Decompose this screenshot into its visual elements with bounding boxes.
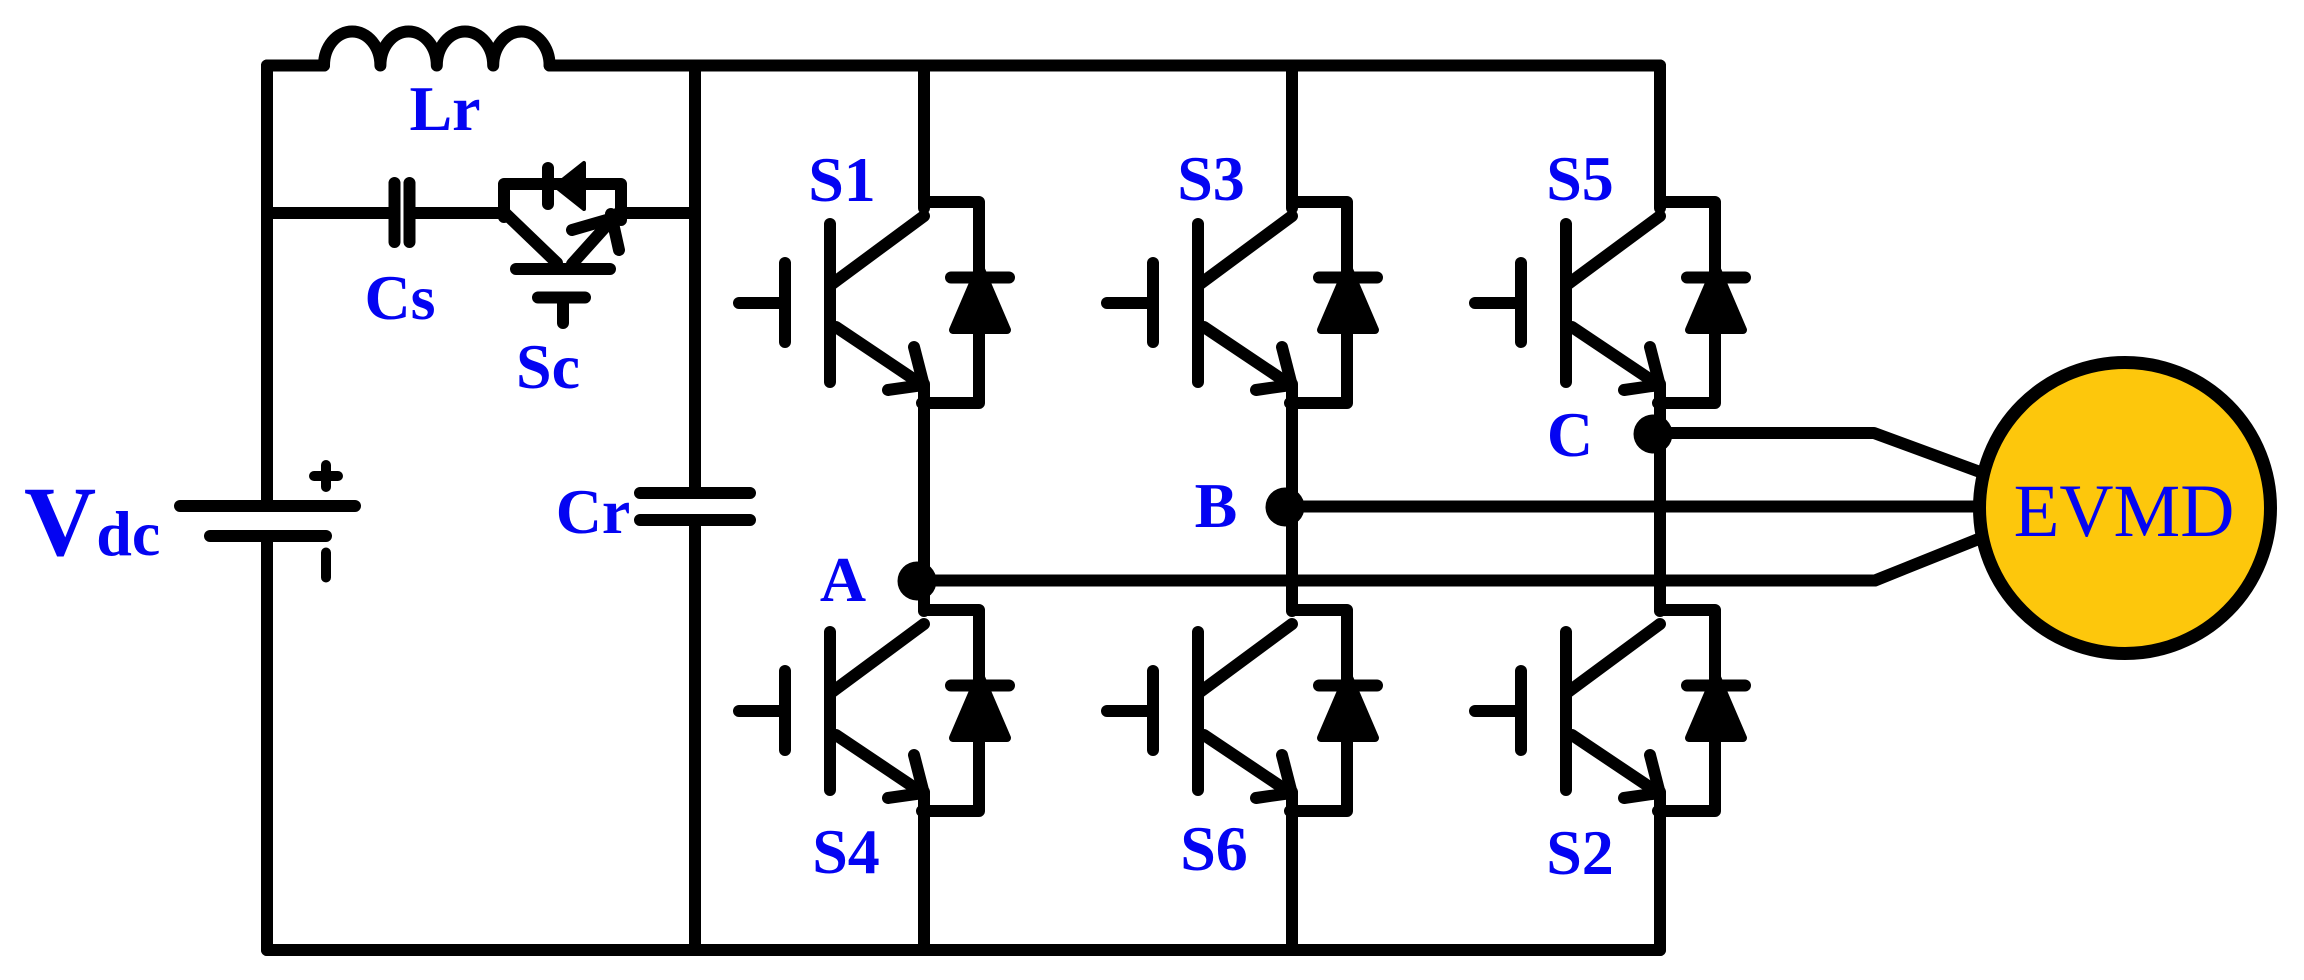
svg-text:S3: S3 <box>1177 143 1245 214</box>
wire Cr leg upper <box>689 66 701 491</box>
wire top DC bus <box>267 60 1660 72</box>
svg-text:Lr: Lr <box>409 73 480 144</box>
transistor S6 <box>1107 624 1292 798</box>
wire phase leg A lower <box>918 792 930 950</box>
svg-text:C: C <box>1547 399 1593 470</box>
wire phase B output to EVMD <box>1285 501 1980 513</box>
wire phase leg B upper <box>1286 66 1298 209</box>
wire Cs branch from left vertical <box>267 207 389 219</box>
svg-text:Sc: Sc <box>516 331 580 402</box>
freewheel diode of S6 <box>1290 610 1377 811</box>
wire phase C output to EVMD <box>1653 433 1980 472</box>
freewheel diode of S4 <box>922 610 1009 811</box>
node A junction dot <box>898 562 937 601</box>
wire Cs to Sc <box>415 207 504 219</box>
svg-text:S4: S4 <box>812 816 880 887</box>
node B junction dot <box>1266 488 1305 527</box>
wire phase leg A middle <box>918 384 930 611</box>
node C junction dot <box>1634 415 1673 454</box>
wire phase leg B lower <box>1286 792 1298 950</box>
transistor S2 <box>1475 624 1660 798</box>
transistor S3 <box>1107 216 1292 390</box>
inductor Lr <box>324 31 550 65</box>
transistor S1 <box>739 216 924 390</box>
wire left vertical from top bus to battery <box>261 66 273 507</box>
wire Sc to Cr leg <box>621 207 695 219</box>
wire phase leg C lower <box>1654 792 1666 950</box>
freewheel diode of S3 <box>1290 202 1377 403</box>
svg-text:S1: S1 <box>808 144 876 215</box>
svg-text:S2: S2 <box>1546 817 1614 888</box>
svg-text:Cs: Cs <box>364 262 435 333</box>
svg-text:A: A <box>820 544 866 615</box>
svg-text:Cr: Cr <box>556 476 631 547</box>
wire phase leg B middle <box>1286 384 1298 611</box>
wire bottom DC bus <box>267 944 1660 956</box>
wire left vertical from battery to bottom bus <box>261 536 273 950</box>
wire Cr leg lower <box>689 523 701 950</box>
switch Sc (auxiliary IGBT) <box>504 184 621 323</box>
svg-text:B: B <box>1195 470 1238 541</box>
svg-text:S6: S6 <box>1180 813 1248 884</box>
freewheel diode of S5 <box>1658 202 1745 403</box>
svg-text:Vdc: Vdc <box>24 466 160 577</box>
wire phase leg C middle <box>1654 384 1666 611</box>
wire phase A output to EVMD <box>917 538 1981 581</box>
transistor S5 <box>1475 216 1660 390</box>
antiparallel diode of Sc <box>548 163 584 209</box>
svg-text:S5: S5 <box>1546 143 1614 214</box>
battery Vdc <box>180 465 355 578</box>
wire phase leg C upper <box>1654 66 1666 209</box>
motor EVMD circle <box>1980 363 2271 654</box>
wire phase leg A upper <box>918 66 930 209</box>
freewheel diode of S2 <box>1658 610 1745 811</box>
transistor S4 <box>739 624 924 798</box>
capacitor Cr <box>640 493 750 520</box>
svg-text:EVMD: EVMD <box>2014 470 2235 553</box>
capacitor Cs <box>395 183 410 242</box>
freewheel diode of S1 <box>922 202 1009 403</box>
